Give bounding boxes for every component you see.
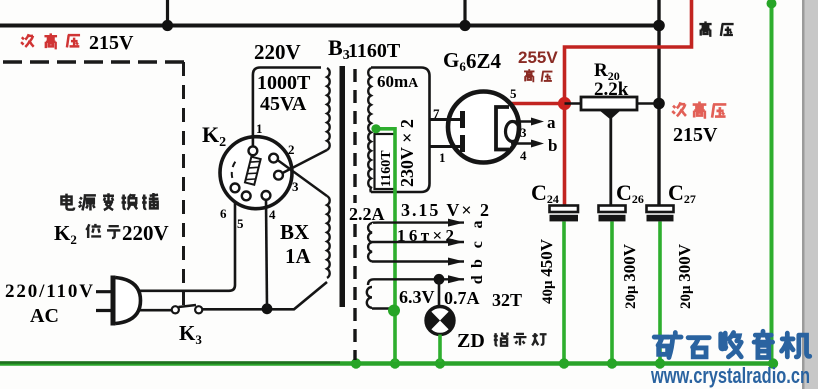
AC plug bbox=[96, 276, 141, 326]
wire: vertical from top edge to C27 x=659 bbox=[657, 0, 660, 206]
node: bus junction x=167 bbox=[162, 20, 173, 31]
svg-text:2.2A: 2.2A bbox=[349, 204, 385, 224]
svg-text:1160T: 1160T bbox=[348, 40, 401, 62]
svg-text:215V: 215V bbox=[673, 124, 718, 146]
HV winding label box bbox=[371, 68, 430, 193]
svg-text:6: 6 bbox=[220, 206, 227, 221]
6.3V winding coil bbox=[367, 287, 372, 308]
node: bus junction x=465 bbox=[459, 20, 470, 31]
wire: green ground bus bbox=[0, 361, 775, 366]
socket pin 1 bbox=[249, 146, 258, 155]
tube plate 1 (pin7) bbox=[430, 118, 461, 121]
resistor R20 leads bbox=[565, 102, 660, 105]
socket key (hatched) bbox=[245, 157, 261, 185]
svg-text:4: 4 bbox=[269, 207, 276, 222]
pin number labels bbox=[220, 121, 299, 231]
tube cathode loop bbox=[506, 122, 520, 142]
svg-text:32T: 32T bbox=[492, 290, 522, 310]
resistor R20 wiper tap bbox=[599, 110, 621, 120]
svg-text:1A: 1A bbox=[285, 244, 312, 268]
tap arrow d bbox=[368, 279, 464, 285]
wire: pin4 down to K3 wire bbox=[266, 200, 267, 308]
tap arrow b bbox=[372, 260, 464, 262]
wire: green ground drops from capacitors bbox=[564, 222, 660, 363]
wire: lamp to ground green bbox=[438, 335, 442, 363]
dashed annotation line vertical bbox=[182, 62, 185, 305]
svg-text:a: a bbox=[469, 221, 486, 229]
svg-text:b: b bbox=[548, 136, 557, 155]
svg-text:255V: 255V bbox=[518, 48, 558, 67]
svg-text:ZD: ZD bbox=[457, 330, 485, 352]
node: lamp branch junction bbox=[434, 274, 445, 285]
wire: green right-edge vertical bbox=[770, 2, 774, 363]
wire: top stub x=167 bbox=[166, 0, 169, 25]
node: green dot top right bbox=[767, 0, 777, 9]
wire: 6.3V winding bottom to green bbox=[372, 307, 390, 309]
socket pin 3 bbox=[274, 171, 283, 180]
node: bus end junction x=659 bbox=[653, 20, 665, 32]
node: green tap dot bbox=[371, 124, 380, 133]
socket pin 6 bbox=[231, 184, 240, 193]
wire: R20 tap down to C26 bbox=[609, 118, 612, 206]
socket dashed arc bbox=[232, 159, 238, 188]
dashed annotation line horizontal bbox=[3, 60, 184, 64]
tube cathode bracket bbox=[496, 107, 509, 150]
svg-text:AC: AC bbox=[30, 305, 59, 327]
transformer core dashed line bbox=[353, 69, 356, 360]
svg-text:215V: 215V bbox=[89, 32, 134, 54]
annotation 电源变换插 bbox=[61, 193, 158, 210]
tube socket K2 bbox=[220, 137, 292, 209]
indicator lamp ZD bbox=[426, 307, 454, 335]
svg-text:b: b bbox=[469, 259, 486, 268]
svg-text:d: d bbox=[469, 275, 486, 284]
svg-text:20μ 300V: 20μ 300V bbox=[620, 243, 639, 309]
svg-text:c: c bbox=[469, 241, 486, 248]
wire: top 215V bus bbox=[0, 24, 659, 28]
node: green bus dots bbox=[351, 358, 778, 368]
resistor R20 bbox=[581, 97, 637, 110]
wire: pin1 up to 220V box bbox=[253, 68, 321, 147]
svg-text:6.3V: 6.3V bbox=[399, 287, 435, 307]
wire: plug top prong to K2 pin6 bbox=[138, 192, 235, 291]
svg-text:1: 1 bbox=[439, 150, 446, 165]
svg-text:220V: 220V bbox=[254, 40, 301, 64]
wire: plug bottom prong to switch K3 bbox=[137, 309, 172, 312]
watermark 矿石收音机 bbox=[654, 331, 810, 357]
svg-text:1: 1 bbox=[256, 121, 263, 136]
wire: red HV net from 6Z4 pin5 bbox=[509, 0, 692, 206]
socket pin 5 bbox=[242, 192, 251, 201]
node: green blob 6.3V return bbox=[388, 305, 400, 317]
svg-text:2.2k: 2.2k bbox=[594, 79, 629, 100]
node: R20 right terminal junction bbox=[653, 98, 665, 110]
transformer primary coil upper bbox=[327, 68, 330, 150]
tap arrow a bbox=[372, 221, 464, 224]
svg-text:1000T: 1000T bbox=[257, 72, 311, 94]
svg-text:0.7A: 0.7A bbox=[444, 288, 480, 308]
capacitor C26 bbox=[599, 206, 626, 222]
svg-text:3: 3 bbox=[292, 179, 299, 194]
socket pin 4 bbox=[262, 191, 271, 200]
svg-text:a: a bbox=[547, 113, 556, 132]
transformer core solid bar bbox=[340, 66, 346, 307]
capacitor C27 bbox=[647, 206, 674, 222]
capacitor C24 bbox=[550, 206, 579, 222]
wire: pin2 to lower primary tap bbox=[278, 160, 328, 196]
svg-text:20μ 300V: 20μ 300V bbox=[675, 243, 694, 309]
wire: ground bus dark tint left bbox=[0, 361, 340, 363]
pin labels 7 1 5 3 4 bbox=[433, 86, 527, 165]
wire: K3 to transformer primary bottom bbox=[202, 282, 327, 309]
tube plate 2 (pin1) bbox=[430, 145, 461, 148]
heater winding coil 16Tx2 bbox=[368, 223, 372, 261]
svg-text:4: 4 bbox=[520, 148, 527, 163]
secondary HV winding coil bbox=[368, 68, 371, 192]
wire: top stub x=465 bbox=[463, 0, 466, 25]
svg-text:BX: BX bbox=[280, 220, 309, 244]
tap arrow c bbox=[372, 241, 464, 243]
svg-text:5: 5 bbox=[510, 86, 517, 101]
node: red junction at R20 left bbox=[558, 97, 571, 110]
svg-text:5: 5 bbox=[237, 216, 244, 231]
label 高压 top right bbox=[699, 21, 733, 36]
transformer primary coil lower bbox=[327, 196, 330, 278]
socket key stem bbox=[252, 155, 254, 158]
1160T small box bbox=[375, 134, 396, 189]
heater arrow b bbox=[511, 142, 535, 145]
svg-text:220/110V: 220/110V bbox=[5, 281, 93, 302]
socket pin 2 bbox=[269, 154, 278, 163]
svg-text:7: 7 bbox=[433, 106, 440, 121]
svg-text:3: 3 bbox=[520, 125, 527, 140]
node: pin4 wire junction bbox=[262, 303, 273, 314]
svg-text:1160T: 1160T bbox=[379, 150, 394, 187]
label 次高压 top left (red) bbox=[21, 33, 80, 48]
wire: green center tap bbox=[375, 129, 395, 362]
svg-text:2: 2 bbox=[288, 142, 295, 157]
svg-text:6Z4: 6Z4 bbox=[466, 49, 502, 73]
svg-text:45VA: 45VA bbox=[260, 93, 307, 115]
svg-text:40μ 450V: 40μ 450V bbox=[537, 238, 556, 304]
svg-text:www.crystalradio.cn: www.crystalradio.cn bbox=[650, 363, 810, 388]
svg-text:230V × 2: 230V × 2 bbox=[397, 119, 417, 187]
switch K3 bbox=[172, 305, 203, 313]
wire: lamp feed bbox=[438, 279, 441, 307]
svg-text:220V: 220V bbox=[122, 221, 169, 245]
label 次高压 right (salmon red) bbox=[672, 102, 726, 118]
tube 6Z4 bbox=[448, 92, 519, 163]
gray scrollbar strip right edge bbox=[802, 0, 818, 389]
wire: pin3 to upper primary tap bbox=[283, 150, 328, 173]
heater arrow a bbox=[514, 120, 535, 123]
